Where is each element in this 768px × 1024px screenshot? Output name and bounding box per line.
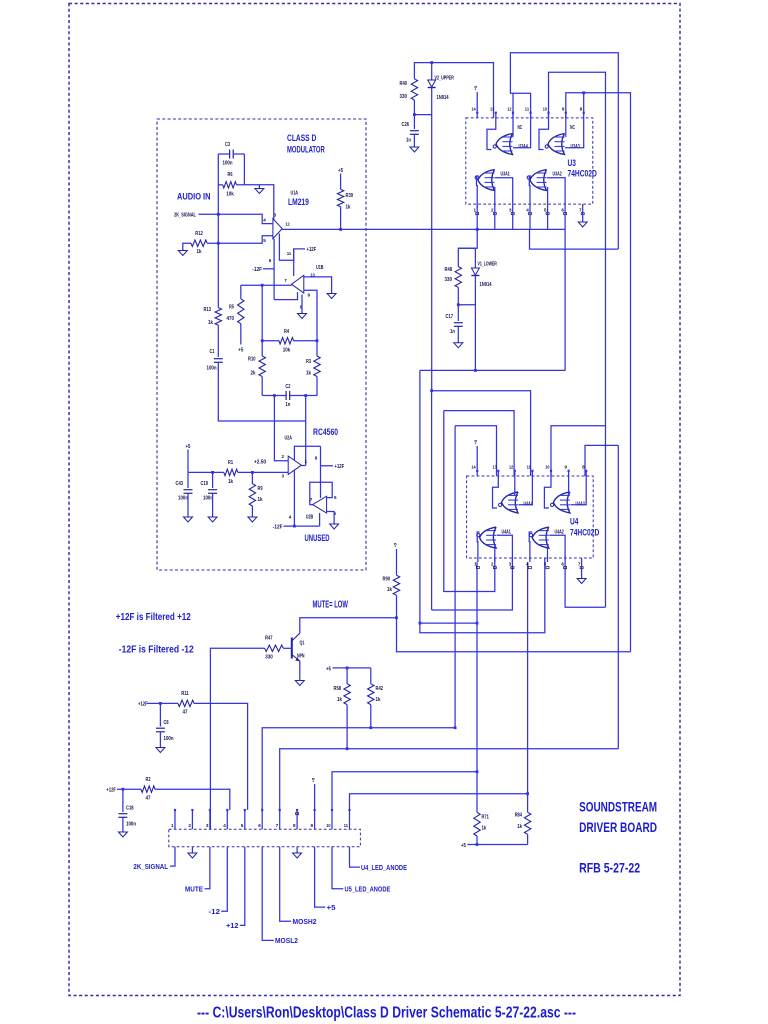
junction MOSL2/row e — [454, 726, 457, 729]
svg-text:U1A: U1A — [291, 191, 299, 197]
wire pin6 to MOSL2 label — [262, 847, 274, 941]
flag +5 at R90 — [396, 549, 398, 575]
wire -12F to U1A/U1B V- — [263, 268, 274, 270]
junction U1B out / R4 branch — [261, 284, 264, 287]
svg-text:7: 7 — [276, 823, 279, 828]
svg-text:CLASS D: CLASS D — [287, 133, 317, 143]
resistor R6 — [218, 184, 222, 186]
svg-text:12: 12 — [509, 465, 514, 470]
svg-text:1k: 1k — [387, 587, 392, 593]
svg-text:470: 470 — [227, 316, 235, 322]
svg-text:SOUNDSTREAM: SOUNDSTREAM — [579, 799, 657, 815]
wire C2 row to U2A output — [305, 396, 307, 466]
svg-text:14: 14 — [471, 465, 476, 470]
svg-text:R10: R10 — [248, 357, 256, 363]
junction C8 — [159, 702, 162, 705]
svg-text:+12F: +12F — [138, 702, 148, 708]
svg-text:DRIVER BOARD: DRIVER BOARD — [579, 819, 657, 835]
wire R11 to connector pin5 — [194, 703, 248, 810]
resistor R13 — [215, 308, 221, 326]
border frame (dashed) — [69, 4, 680, 996]
svg-text:NC: NC — [517, 125, 522, 131]
svg-text:6: 6 — [269, 258, 272, 263]
wire U2B pin5 to ground — [327, 512, 335, 525]
gate U4A1 — [480, 527, 497, 548]
svg-text:10k: 10k — [226, 192, 234, 198]
capacitor C19 — [212, 472, 214, 488]
resistor R10 — [259, 356, 265, 377]
svg-text:U1B: U1B — [316, 265, 324, 271]
svg-text:9: 9 — [311, 823, 314, 828]
svg-text:1k: 1k — [376, 697, 381, 703]
svg-text:2: 2 — [491, 562, 494, 567]
gate U4A2 — [532, 527, 549, 548]
wire connector pin7 to MOSH2 row — [280, 749, 619, 810]
svg-text:R1: R1 — [228, 460, 233, 466]
gate U4A4 — [502, 492, 519, 513]
svg-text:UNUSED: UNUSED — [305, 533, 330, 543]
svg-text:NPN: NPN — [297, 654, 305, 660]
svg-text:+12: +12 — [226, 923, 239, 930]
svg-text:11: 11 — [527, 465, 532, 470]
svg-text:330: 330 — [400, 94, 408, 100]
svg-text:5: 5 — [544, 208, 547, 213]
svg-text:1: 1 — [171, 823, 174, 828]
svg-text:+5: +5 — [327, 905, 336, 912]
wire row e vertical to MOSL2 row — [454, 426, 456, 728]
wire C2 row to U2A pin2 — [274, 396, 288, 461]
svg-text:4: 4 — [526, 562, 529, 567]
U3 bottom pin stubs and numbers — [476, 204, 478, 208]
diode V2_UPPER 1N914 — [431, 63, 433, 80]
svg-text:3: 3 — [281, 474, 284, 479]
junction R12/R13 — [217, 242, 220, 245]
svg-text:AUDIO IN: AUDIO IN — [177, 192, 211, 202]
svg-text:R90: R90 — [383, 577, 391, 583]
svg-text:1k: 1k — [482, 826, 487, 832]
wire U4 pin6 loop — [565, 562, 605, 607]
wire row g to U4 pin8 — [585, 445, 618, 476]
svg-text:1k: 1k — [306, 371, 311, 377]
svg-text:12: 12 — [507, 107, 512, 112]
wire nested vertical x420 and row k to U4 pin5 — [420, 370, 545, 632]
svg-text:330: 330 — [265, 655, 273, 661]
svg-text:U3A4: U3A4 — [519, 144, 528, 150]
svg-text:6: 6 — [561, 208, 564, 213]
svg-text:11: 11 — [287, 251, 292, 256]
junction R84 row — [526, 792, 529, 795]
svg-text:9: 9 — [565, 465, 568, 470]
wire R42 to MOSL2 row — [370, 705, 372, 728]
wire R39 to output row — [340, 207, 342, 230]
wire R90 bottom to U3 arch row — [397, 595, 631, 652]
wire Q1 emitter to ground — [299, 661, 301, 681]
ground at U1B pin10 — [327, 294, 336, 299]
flag +5 at connector pin9 — [314, 784, 316, 810]
wire U1B pin9 to R3/R4 node — [304, 290, 317, 341]
svg-text:MUTE= LOW: MUTE= LOW — [313, 600, 349, 611]
junction R42/MOSL2 — [369, 726, 372, 729]
svg-text:47: 47 — [146, 796, 151, 802]
svg-text:R84: R84 — [515, 813, 522, 819]
svg-text:R48: R48 — [445, 267, 453, 273]
wire row d to U4 pin12 — [444, 411, 514, 476]
wire V1_LOWER cathode down — [474, 276, 476, 371]
svg-text:R40: R40 — [400, 81, 408, 87]
resistor R42 — [370, 668, 372, 684]
svg-text:C43: C43 — [176, 481, 184, 487]
wire +5 down to row — [187, 450, 189, 473]
svg-text:1n: 1n — [285, 402, 290, 408]
junction R58 top — [346, 667, 349, 670]
svg-text:4: 4 — [263, 218, 266, 223]
svg-text:R42: R42 — [376, 686, 384, 692]
svg-text:2k: 2k — [251, 371, 256, 377]
wire pin9 to +5 label — [315, 847, 326, 907]
resistor R4 — [262, 340, 279, 342]
diode V1_LOWER 1N914 — [471, 268, 479, 275]
svg-text:+5: +5 — [238, 348, 243, 354]
wire arch1 return to U3 pin4 line — [530, 229, 619, 249]
wire +13F row — [147, 702, 178, 704]
wire V2_UPPER line lower part — [431, 391, 433, 610]
svg-text:5: 5 — [241, 823, 244, 828]
wire U3 pin6 line down to row a — [564, 208, 566, 370]
wire U4 pin1 long vertical to R71 — [476, 562, 478, 812]
svg-text:-12F: -12F — [252, 267, 262, 273]
flag at connector pin8 — [296, 813, 299, 815]
wire pin5 to +12 label — [240, 847, 245, 926]
junction 2K_SIGNAL/C3 — [217, 213, 220, 216]
junction R9/+2.50 — [251, 471, 254, 474]
U3 internal gate wires — [487, 118, 496, 150]
wire U2A V- down to -12F row — [293, 471, 295, 527]
svg-text:7: 7 — [284, 278, 287, 283]
op-amp U2B — [313, 496, 327, 513]
resistor R39 — [337, 189, 343, 207]
flag +5 at U3 pin14 — [476, 92, 478, 112]
svg-text:R5: R5 — [229, 305, 234, 311]
capacitor C43 — [187, 472, 189, 488]
ground at pin8 — [296, 847, 298, 853]
ground at Q1 emitter — [295, 681, 304, 686]
svg-text:+12F: +12F — [307, 247, 317, 253]
wire connector pin11 to R84 row — [350, 794, 528, 810]
ground at U1B pin8 — [298, 314, 307, 319]
wire V- to U1B bottom — [274, 292, 297, 300]
svg-text:100n: 100n — [126, 822, 136, 828]
wire R12 left to ground — [183, 243, 191, 250]
transistor Q1 NPN — [291, 638, 293, 659]
svg-text:1: 1 — [474, 562, 477, 567]
flag +5 at U4 pin14 — [476, 446, 478, 470]
svg-text:1n: 1n — [406, 138, 411, 144]
svg-text:+5: +5 — [473, 85, 478, 90]
svg-text:RC4560: RC4560 — [313, 427, 338, 437]
junction R48/C17 — [457, 303, 460, 306]
svg-text:+5: +5 — [338, 168, 343, 174]
svg-text:U3A2: U3A2 — [553, 172, 562, 178]
ground at C17 — [454, 343, 463, 348]
wire U1A output row (comparator out) — [282, 228, 565, 230]
junction comparator/pin1 — [476, 228, 479, 231]
svg-text:-12F is Filtered -12: -12F is Filtered -12 — [119, 644, 194, 656]
junction C2 row right branch — [304, 394, 307, 397]
wire U2A output tip — [301, 465, 305, 467]
svg-text:7: 7 — [579, 208, 582, 213]
Class D Modulator dashed box — [157, 119, 366, 570]
wire connector pin10 to U5 LED row — [332, 772, 477, 810]
wire bias row — [188, 471, 224, 473]
wire R5 to +5 flag — [240, 324, 242, 345]
junction C18 — [122, 788, 125, 791]
svg-text:MOSL2: MOSL2 — [275, 938, 298, 945]
svg-text:9: 9 — [308, 293, 311, 298]
wires U3 pins2-6 drops to comparator row — [494, 208, 496, 229]
svg-text:3: 3 — [206, 823, 209, 828]
wire U2A V+ rail — [294, 446, 320, 460]
wire row d vertical to row h — [444, 411, 495, 592]
wire pin7 to MOSH2 label — [280, 847, 292, 922]
wire U1B out down to R4/R10 — [261, 285, 263, 356]
svg-text:U2A: U2A — [284, 436, 292, 442]
svg-text:Q1: Q1 — [300, 641, 305, 647]
connector J1 dashed outline — [169, 829, 361, 847]
svg-text:8: 8 — [293, 823, 296, 828]
ground at C18 — [118, 832, 127, 837]
junction R39/output — [339, 228, 342, 231]
wire U1A pin11 to +12F — [279, 234, 305, 261]
svg-text:+12F: +12F — [106, 788, 116, 794]
svg-text:9: 9 — [562, 107, 565, 112]
junction row c left — [430, 389, 433, 392]
ground at R12 — [178, 251, 187, 256]
svg-text:MUTE: MUTE — [185, 887, 203, 894]
svg-text:12: 12 — [285, 222, 290, 227]
svg-text:R9: R9 — [258, 486, 263, 492]
svg-text:U4_LED_ANODE: U4_LED_ANODE — [361, 865, 407, 872]
svg-text:R2: R2 — [146, 777, 151, 783]
U4 dashed outline — [467, 476, 594, 558]
wire comparator row down to V1_LOWER — [458, 229, 477, 266]
svg-text:3: 3 — [274, 213, 277, 218]
svg-text:LM219: LM219 — [288, 197, 309, 207]
wire connector pin6 to MOSL2 row — [262, 728, 455, 810]
svg-text:C18: C18 — [126, 806, 134, 812]
svg-text:2K_SIGNAL: 2K_SIGNAL — [174, 213, 196, 219]
svg-text:MODULATOR: MODULATOR — [287, 145, 325, 155]
wire pin10 to U5_LED_ANODE label — [332, 847, 343, 889]
wire R13 to C1 — [217, 325, 219, 357]
svg-text:4: 4 — [223, 823, 226, 828]
wire U2B feedback loop — [310, 482, 332, 504]
junction R40/C26/diode link — [413, 113, 416, 116]
svg-text:2K_SIGNAL: 2K_SIGNAL — [133, 864, 168, 871]
svg-text:100n: 100n — [178, 496, 188, 502]
svg-text:7: 7 — [578, 562, 581, 567]
wire arch U3 pin10 — [549, 72, 606, 607]
wire +12F label stub — [321, 465, 334, 467]
wire +5 rail R58/R42 — [333, 667, 371, 669]
wire U3 pin1 drop to output row — [476, 204, 478, 229]
svg-text:1k: 1k — [517, 824, 522, 830]
capacitor C3 — [218, 153, 229, 155]
ground at C8 — [156, 748, 165, 753]
svg-text:6: 6 — [258, 823, 261, 828]
svg-text:RFB 5-27-22: RFB 5-27-22 — [579, 860, 640, 876]
svg-text:C1: C1 — [210, 349, 215, 355]
wire +12F down to U1B V+ — [293, 249, 295, 276]
wire diode V1_LOWER top — [458, 248, 475, 268]
ground at U2B pin5 — [330, 524, 339, 529]
svg-text:U3A3: U3A3 — [571, 144, 580, 150]
wire R10 to C2 row — [261, 377, 263, 396]
svg-text:3: 3 — [509, 208, 512, 213]
svg-text:10: 10 — [545, 465, 550, 470]
ground at U4 pin7 — [581, 562, 583, 579]
gate U4A3 — [553, 492, 570, 513]
gate U3A4 — [496, 134, 513, 155]
ground at C19 — [208, 517, 217, 522]
svg-text:U3: U3 — [568, 158, 576, 168]
wire C3/R6 right vertical — [243, 154, 245, 185]
capacitor C1 — [214, 358, 223, 360]
junction R71/+5 — [476, 843, 479, 846]
resistor R48 — [455, 267, 461, 288]
resistor R40 — [411, 79, 417, 100]
capacitor C2 — [262, 395, 286, 397]
svg-text:U4: U4 — [570, 517, 578, 527]
junction MUTE row on R90 line — [395, 616, 398, 619]
svg-text:U3A1: U3A1 — [501, 172, 510, 178]
wire row a V1_LOWER net — [420, 369, 566, 371]
svg-text:4: 4 — [289, 515, 292, 520]
svg-text:4: 4 — [526, 208, 529, 213]
svg-text:C2: C2 — [285, 384, 290, 390]
gate U3A2 — [530, 170, 547, 191]
wire +12F row — [117, 788, 141, 790]
wire R48 bottom join — [458, 287, 475, 304]
junction R4 left — [261, 339, 264, 342]
wire C1 down and right to U2A net — [218, 362, 305, 421]
wire R12 right to U1A pin5 — [207, 236, 273, 243]
junction R58/MOSH2 — [346, 747, 349, 750]
svg-text:5: 5 — [263, 238, 266, 243]
svg-text:+5: +5 — [393, 542, 398, 547]
wire C3/R6 left vertical — [217, 154, 219, 308]
wire +5 to R39 — [340, 174, 342, 190]
svg-text:3: 3 — [509, 562, 512, 567]
svg-text:C8: C8 — [164, 720, 169, 726]
junction C2 row left branch — [273, 394, 276, 397]
wire R58 to MOSH2 row — [346, 705, 348, 749]
svg-text:C26: C26 — [402, 122, 410, 128]
wire row g vertical to MOSH2 row — [617, 445, 619, 748]
ground at pin2 — [191, 847, 193, 853]
svg-text:2: 2 — [188, 823, 191, 828]
wire U1B output row — [241, 284, 292, 286]
svg-text:NC: NC — [570, 125, 575, 131]
connector top pin stubs — [174, 810, 176, 829]
svg-text:U2B: U2B — [306, 515, 314, 521]
wire U1B pin10 to ground — [304, 277, 332, 294]
svg-text:R47: R47 — [265, 636, 273, 642]
wire R47 to MUTE connector line — [210, 648, 264, 829]
svg-text:1k: 1k — [258, 497, 263, 503]
wire pin3 to MUTE label — [205, 847, 210, 889]
svg-text:C3: C3 — [225, 142, 230, 148]
op-amp U1A LM219 — [273, 219, 282, 239]
junction U5 LED row — [476, 770, 479, 773]
svg-text:1: 1 — [473, 208, 476, 213]
wire R47 base link — [283, 647, 292, 649]
svg-text:8: 8 — [580, 107, 583, 112]
resistor R1 — [224, 469, 238, 475]
wire R71 bottom — [476, 836, 478, 845]
wire 2K_SIGNAL row to U1A pin4 — [199, 214, 273, 223]
svg-text:R6: R6 — [228, 172, 233, 178]
svg-text:R12: R12 — [195, 231, 203, 237]
svg-text:8: 8 — [315, 456, 318, 461]
op-amp U2A — [288, 456, 301, 474]
capacitor C18 — [122, 789, 124, 812]
wire row i pin3 link — [432, 558, 513, 610]
svg-text:1k: 1k — [346, 205, 351, 211]
ground at R9 — [248, 517, 257, 522]
svg-text:13: 13 — [493, 465, 498, 470]
svg-text:100n: 100n — [207, 366, 217, 372]
resistor R11 — [178, 700, 194, 706]
U4 bottom pin stubs and numbers — [477, 558, 479, 562]
svg-text:--- C:\Users\Ron\Desktop\Clas: --- C:\Users\Ron\Desktop\Class D Driver … — [197, 1004, 576, 1021]
wire Q1 collector / MUTE row — [300, 618, 397, 634]
wire U1B pin8 stub — [301, 295, 303, 314]
junction U2A V- on -12F row — [293, 525, 296, 528]
svg-text:+5: +5 — [473, 439, 478, 444]
wire link R40 bottom to diode line — [414, 114, 431, 116]
svg-text:C19: C19 — [201, 481, 209, 487]
resistor R71 — [474, 812, 480, 836]
wire row e to U4 pin13 — [455, 426, 496, 476]
U3 dashed outline — [466, 118, 593, 204]
wire pin4 to -12 label — [221, 847, 227, 912]
svg-text:+5: +5 — [186, 444, 191, 450]
gate U3A3 — [548, 134, 565, 155]
wire arch U3 pins 9/8 — [566, 93, 631, 652]
wire pin1 to 2K_SIGNAL — [170, 847, 175, 866]
svg-text:100n: 100n — [164, 736, 174, 742]
svg-text:-12F: -12F — [273, 525, 283, 531]
svg-text:11: 11 — [525, 107, 530, 112]
capacitor C26 — [410, 130, 419, 132]
resistor R58 — [346, 668, 348, 684]
svg-text:10: 10 — [543, 107, 548, 112]
svg-text:6: 6 — [561, 562, 564, 567]
svg-text:-12: -12 — [209, 909, 221, 916]
svg-text:C17: C17 — [446, 314, 454, 320]
svg-text:R71: R71 — [482, 815, 489, 821]
svg-text:+5: +5 — [311, 777, 316, 782]
svg-text:8: 8 — [582, 465, 585, 470]
svg-text:74HC02D: 74HC02D — [570, 528, 600, 538]
svg-text:6: 6 — [334, 495, 337, 500]
svg-text:1n: 1n — [450, 329, 455, 335]
svg-text:+5: +5 — [326, 667, 331, 673]
svg-text:1k: 1k — [208, 320, 213, 326]
svg-text:R3: R3 — [306, 359, 311, 365]
svg-text:MOSH2: MOSH2 — [293, 919, 317, 926]
svg-text:2: 2 — [281, 454, 284, 459]
